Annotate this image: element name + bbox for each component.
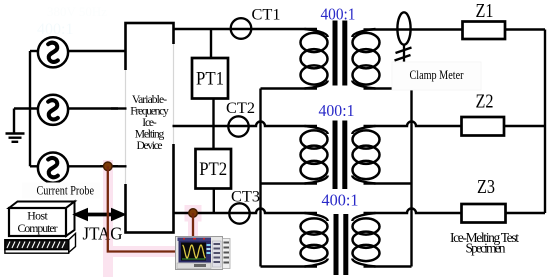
PT2 bottom stub [213, 189, 215, 214]
secondary line 1 [364, 28, 463, 30]
secondary line 2 with hop [364, 122, 462, 127]
svg-text:Z2: Z2 [476, 92, 494, 113]
transformer T3 primary coil [301, 213, 328, 267]
transformer T2 core [333, 121, 338, 190]
svg-text:Clamp Meter: Clamp Meter [410, 68, 465, 82]
current probe dot B [189, 209, 198, 218]
T1 primary bottom wire [261, 87, 318, 89]
keyboard hatch [7, 242, 65, 249]
device box: Variable-Frequency Ice-Melting Device [126, 23, 174, 233]
T1 secondary bottom wire [364, 87, 412, 89]
clamp meter ellipse [397, 12, 410, 44]
device label text [130, 93, 169, 152]
T2 primary bottom wire [261, 182, 318, 184]
ice-melting label [450, 230, 519, 256]
transformer T3 core [334, 214, 339, 275]
device border ghost lines [126, 44, 174, 184]
wire: source3 to device [69, 165, 127, 167]
wire: source2/ground line [14, 107, 39, 109]
transformer T1 secondary coil [352, 29, 379, 89]
ground [6, 109, 25, 142]
svg-text:JTAG: JTAG [83, 224, 123, 244]
T2 secondary bottom wire [364, 182, 412, 184]
svg-text:380V 50Hz: 380V 50Hz [47, 4, 107, 19]
svg-text:Specimen: Specimen [466, 241, 506, 256]
svg-text:PT2: PT2 [199, 160, 227, 180]
wire: left neutral bus [29, 51, 31, 166]
svg-text:CT3: CT3 [231, 189, 260, 206]
T3 secondary bottom wire [364, 265, 412, 267]
CT3 circle [229, 203, 249, 223]
CT1 circle [231, 18, 252, 39]
PT2 top stub [212, 126, 214, 149]
wire: source3 left stub [30, 165, 39, 167]
transformer T2 primary coil [301, 126, 328, 184]
AC source G2 [38, 95, 68, 125]
svg-text:400:1: 400:1 [322, 191, 359, 210]
svg-text:CT2: CT2 [226, 100, 255, 117]
clamp meter label box [392, 62, 481, 90]
svg-text:400:1: 400:1 [37, 21, 73, 38]
AC source G3 [38, 153, 68, 183]
clamp meter slashes [395, 48, 412, 61]
host computer label [18, 209, 58, 236]
PT1 box [192, 58, 228, 99]
svg-text:Current Probe: Current Probe [37, 184, 95, 198]
clamp meter tail [403, 44, 405, 63]
PT1 top stub [210, 29, 212, 58]
svg-text:CT1: CT1 [252, 7, 281, 24]
probe wire A [108, 166, 176, 251]
svg-text:400:1: 400:1 [319, 101, 355, 120]
Z1 box [463, 22, 506, 40]
PT2 box [196, 149, 232, 189]
primary return bus [259, 89, 261, 267]
device label white overlay [118, 70, 172, 184]
wire: source2 to device [69, 107, 127, 109]
wire Z2 to bus [504, 125, 545, 127]
secondary return bus [410, 89, 412, 267]
PT1 bottom stub [212, 99, 214, 127]
wire Z3 to bus [506, 212, 546, 214]
right bus [544, 30, 546, 214]
AC source G1 [38, 37, 68, 67]
T3 primary bottom wire [261, 265, 318, 267]
wire: line3 stub over overlay [100, 165, 127, 167]
wire: source1 left stub [30, 50, 39, 52]
secondary line 3 with hop [364, 209, 462, 214]
svg-text:Z1: Z1 [476, 1, 494, 22]
probe wire B [192, 213, 194, 238]
svg-text:400:1: 400:1 [321, 5, 356, 24]
JTAG arrow [74, 209, 126, 221]
transformer T3 secondary coil [352, 213, 379, 267]
host computer [5, 202, 76, 254]
phase line 3 with hop [174, 209, 318, 214]
scope waveform [183, 245, 206, 258]
CT2 circle [228, 116, 248, 136]
current probe dot A [104, 162, 113, 171]
svg-text:Computer: Computer [18, 221, 58, 235]
wire: line2 stub over overlay [111, 107, 127, 109]
svg-text:PT1: PT1 [196, 70, 224, 90]
oscilloscope [176, 237, 231, 270]
phase line 2 with hop [173, 122, 318, 127]
current probe label [22, 183, 100, 199]
Z3 box [462, 204, 506, 223]
transformer T1 primary coil [301, 29, 328, 89]
wire Z1 to bus [505, 28, 545, 30]
transformer T2 secondary coil [352, 126, 379, 184]
Z2 box [462, 117, 505, 136]
phase line 1 [174, 28, 318, 30]
svg-text:Z3: Z3 [477, 177, 495, 198]
pink highlight band current probe wire 1 [103, 160, 202, 277]
wire: source1 to device [69, 50, 127, 52]
device right border white overlay [171, 44, 180, 144]
svg-text:Device: Device [137, 139, 163, 152]
transformer T1 core [333, 21, 338, 86]
